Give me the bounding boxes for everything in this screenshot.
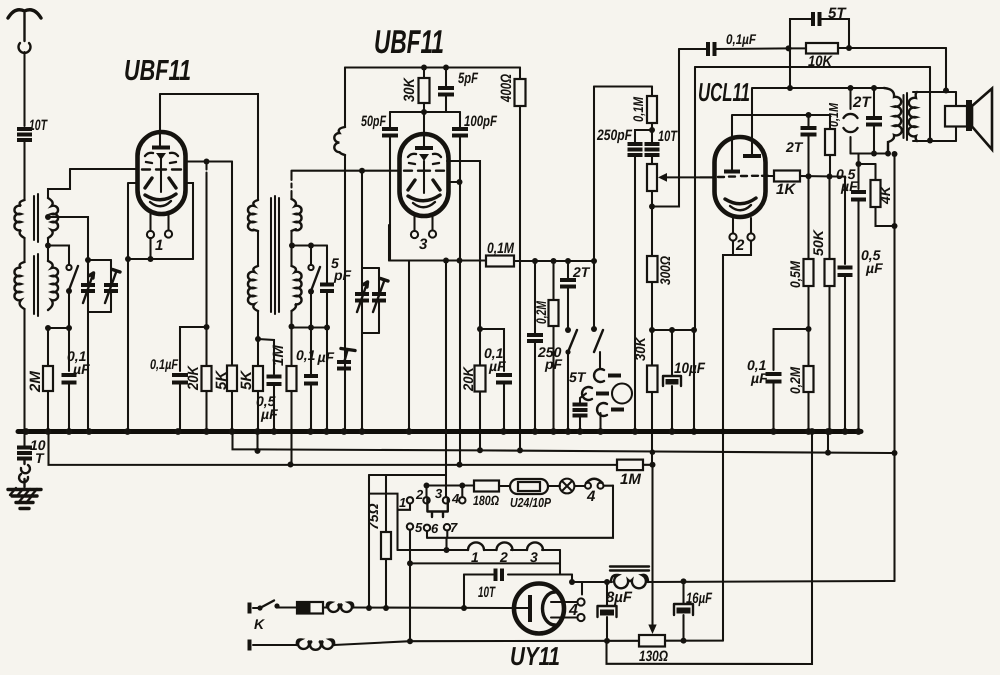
wire winding tap [445, 538, 447, 550]
svg-text:pF: pF [544, 356, 563, 372]
wire osc primary link [257, 231, 259, 266]
node tap1 [45, 214, 51, 220]
coil IF primary small [334, 127, 345, 155]
svg-text:µF: µF [865, 260, 883, 276]
node 4K return [892, 223, 898, 229]
svg-text:20K: 20K [185, 365, 202, 391]
AF takeoff line [859, 154, 876, 165]
tube1 pin 1 left [147, 214, 154, 238]
node heater2 AVC [457, 462, 463, 468]
wire secondary top to grid riser [48, 169, 70, 198]
B plus line under transformer [851, 152, 889, 154]
svg-text:4: 4 [586, 488, 596, 505]
svg-text:20K: 20K [460, 366, 476, 392]
svg-text:4: 4 [451, 491, 460, 506]
selector pin 5 [407, 523, 413, 529]
screen line tube2 [390, 111, 460, 113]
tube2 pin 3 left [411, 216, 418, 238]
node osc bottom right [324, 325, 330, 331]
wire pin4 riser [461, 486, 463, 498]
capacitor 8uF electrolytic [598, 582, 617, 641]
wire socket drop to bus [408, 261, 410, 432]
node switch line junction [66, 325, 72, 331]
wire tube1 box right [186, 183, 194, 259]
node 0.2M top [551, 258, 557, 264]
capacitor 2T tone arcs [844, 88, 858, 154]
node bus link right [825, 428, 832, 435]
resistor 1M hum [617, 460, 653, 471]
tube2 internal screen strokes [408, 180, 440, 190]
wire antenna down [23, 52, 25, 126]
wire tap2 to switch [48, 246, 69, 266]
ground bus [18, 429, 861, 434]
node det line right [591, 258, 597, 264]
node plate flat cap [871, 85, 877, 91]
svg-text:10T: 10T [658, 128, 678, 145]
svg-text:2T: 2T [572, 264, 591, 280]
osc varcap rail bottom [362, 332, 379, 334]
node 10K right [846, 45, 852, 51]
node B plus drop top [892, 151, 898, 157]
resistor 0.5M [804, 176, 814, 329]
wire pin1 feed [369, 494, 398, 550]
speaker frame top [913, 91, 956, 93]
tube1 pin 1 right [165, 214, 172, 238]
tube2 internal diode dashes [409, 163, 439, 164]
node 0.1M bottom [649, 127, 655, 133]
resistor 10K feedback [789, 43, 947, 54]
tube1 internal center stem [160, 158, 162, 192]
UY11 pin 4 top [551, 598, 585, 605]
wire UCL11 pin stub [732, 241, 734, 256]
tube UCL11 envelope [715, 137, 766, 217]
node hum line crossing [650, 449, 656, 455]
node 10uF top [669, 327, 675, 333]
UCL11 plate line A [752, 88, 884, 155]
mains fuse [277, 602, 327, 614]
svg-text:5T: 5T [569, 369, 587, 385]
svg-text:2T: 2T [785, 139, 804, 155]
tube2 diode1 line [447, 161, 480, 329]
wire secondary link [47, 238, 49, 261]
node selector left mains [366, 605, 372, 611]
tube1 socket line [128, 258, 193, 260]
heater loop right [427, 486, 613, 538]
osc coil primary top [248, 200, 258, 231]
wire tuning riser [361, 171, 363, 268]
core osc transformer [271, 196, 279, 314]
wire UCL11 cathode drop [723, 241, 751, 641]
svg-text:250pF: 250pF [596, 127, 632, 144]
wire tube1 plate to osc primary [160, 94, 258, 200]
node selector plug top [424, 483, 430, 489]
resistor 4K [871, 164, 895, 226]
osc bottom link line [292, 326, 328, 328]
capacitor 10T antenna [17, 129, 32, 200]
wire grid line tube1 [70, 168, 138, 170]
wire tube1 box left to bus [127, 259, 129, 432]
UCL11 grid dashes [718, 176, 768, 177]
svg-text:50K: 50K [810, 229, 826, 256]
wire shunt to heater line [571, 575, 573, 583]
wire shunt left drop [463, 575, 465, 609]
wire grid line tube2 [292, 170, 400, 172]
tube UBF11 no2 envelope [400, 134, 449, 216]
svg-text:0,2M: 0,2M [787, 367, 803, 394]
mains terminal L2 [248, 640, 252, 651]
resistor 0.2M det [549, 261, 559, 432]
resistor 50K [825, 177, 835, 432]
svg-text:10K: 10K [808, 53, 833, 70]
svg-text:5T: 5T [828, 5, 847, 22]
osc varcap rail top [362, 267, 379, 269]
node pin5 heater [407, 560, 413, 566]
svg-text:0,2M: 0,2M [533, 301, 549, 324]
mains line L1 [353, 606, 515, 609]
node 16uF bottom [681, 638, 687, 644]
tube UBF11 no1 envelope [138, 132, 186, 214]
wire osc secondary link [290, 231, 292, 266]
capacitor 5pF osc [320, 246, 334, 432]
wire AVC jog [180, 327, 207, 371]
switch S1 band [66, 265, 78, 294]
node coil bottom junction [45, 325, 51, 331]
varcap rail top [88, 259, 111, 261]
svg-text:µF: µF [750, 370, 768, 386]
node selector pin4 riser [459, 483, 465, 489]
node line B 2T [806, 112, 812, 118]
node feedback tap [786, 45, 792, 51]
capacitor 10T filament [496, 569, 503, 582]
svg-text:0,1M: 0,1M [487, 240, 514, 257]
humdinger return loop [607, 432, 813, 665]
node pot bottom [649, 204, 655, 210]
node tube1 box corner [125, 256, 131, 262]
svg-text:UY11: UY11 [510, 641, 560, 671]
svg-text:5pF: 5pF [458, 70, 479, 87]
speaker frame bottom [913, 140, 956, 142]
node B plus flat cap [871, 151, 877, 157]
resistor 30K screen [647, 330, 658, 465]
selector pin 6 [424, 525, 430, 531]
grid decouple jog [774, 328, 809, 330]
capacitor 0.1uF osc [304, 376, 318, 384]
capacitor 5T tone loop [790, 12, 849, 48]
resistor 0.1M AF [647, 87, 657, 131]
node 75ohm mains [383, 605, 389, 611]
svg-text:UBF11: UBF11 [124, 55, 191, 87]
resistor 0.2M bias [804, 329, 814, 432]
osc secondary tap line [292, 244, 327, 246]
wire osc secondary riser dashed [290, 171, 292, 199]
tube2 cathode arcs [408, 195, 440, 201]
svg-text:180Ω: 180Ω [473, 493, 499, 508]
switch S4 phone [591, 261, 603, 368]
node 30K top [421, 65, 427, 71]
node 16uF top [681, 578, 687, 584]
wire B plus drop right [893, 154, 895, 582]
speaker frame right [955, 92, 957, 141]
svg-text:0,1µF: 0,1µF [150, 356, 178, 372]
tube1 internal diode arcs [145, 153, 178, 156]
node UY heater left [569, 579, 575, 585]
resistor 1K [774, 171, 845, 182]
svg-text:0,1M: 0,1M [630, 97, 646, 122]
selector feed line [427, 486, 475, 498]
capacitor 2T jack [560, 261, 576, 328]
wire pin1 stub [398, 504, 411, 510]
tube2 internal center stem [423, 161, 425, 193]
node 30K bottom [421, 109, 427, 115]
tube2 pin 3 right [429, 216, 436, 238]
node osc tap [289, 243, 295, 249]
wire AVC down [205, 162, 207, 328]
node screen jog left [649, 327, 655, 333]
capacitor 50pF [382, 112, 398, 261]
capacitor tone flat [866, 88, 882, 154]
svg-text:UBF11: UBF11 [374, 23, 444, 60]
heater winding 3 [527, 542, 543, 550]
wiper arrow volume [658, 173, 715, 182]
selector box left [368, 475, 370, 608]
svg-text:300Ω: 300Ω [657, 256, 673, 285]
svg-text:5K: 5K [238, 370, 255, 390]
wire IF coil feed [344, 68, 346, 127]
heater rail two [49, 432, 618, 465]
screen jog line [652, 329, 694, 331]
node plate 2T arc cap [848, 85, 854, 91]
pilot lamp [560, 479, 585, 494]
UY11 anode lead [515, 607, 530, 609]
node B plus transformer [885, 151, 891, 157]
capacitor 0.1uF det [480, 329, 512, 432]
trimmer capacitor IF line [337, 349, 355, 369]
node heater1 20K [477, 447, 483, 453]
tube2 internal triangle [419, 154, 429, 161]
wire tube1 box left [128, 183, 138, 259]
wire IF coil to bus [344, 155, 346, 432]
tube2 diode2 stub [448, 181, 460, 183]
selector pin 2 [423, 497, 429, 503]
svg-text:400Ω: 400Ω [498, 74, 515, 103]
svg-text:µF: µF [260, 406, 278, 422]
resistor 5K second [253, 311, 263, 432]
node AVC takeoff [204, 159, 210, 165]
B plus line [647, 581, 895, 582]
antenna coil secondary bottom [48, 261, 58, 310]
osc coil secondary top [292, 199, 302, 231]
svg-text:30K: 30K [401, 77, 418, 102]
svg-text:1K: 1K [776, 181, 796, 198]
wire diode1 to 5K [231, 162, 233, 366]
core antenna transformer [34, 194, 38, 316]
variable capacitor C-ant2 trimmer [104, 260, 120, 312]
resistor 20K second [475, 329, 486, 451]
capacitor 10uF electrolytic [663, 330, 681, 432]
osc coil secondary bottom [292, 266, 302, 311]
resistor 180ohm [474, 481, 510, 492]
svg-text:1: 1 [471, 549, 479, 565]
node tube1 pin stub [148, 256, 154, 262]
node plate line feedback [787, 85, 793, 91]
wire tube2 top [423, 112, 425, 146]
capacitor 10T AF [645, 130, 660, 164]
wire feedback to plate [789, 48, 791, 88]
wire primary link [23, 238, 25, 262]
svg-text:7: 7 [450, 520, 458, 535]
node 8uF mains [604, 638, 610, 644]
node heater1 400ohm [517, 447, 523, 453]
phone jack hooks [582, 369, 624, 416]
capacitor 0.5uF cathode [258, 339, 282, 432]
wire switch to junction [68, 291, 70, 371]
svg-text:K: K [254, 616, 265, 632]
heater lower wire [410, 550, 560, 575]
tube1 internal triangle [156, 153, 166, 160]
svg-text:5: 5 [415, 520, 423, 535]
resistor 20K first [202, 327, 212, 432]
potentiometer 0.1M volume [647, 164, 657, 256]
node 5pF top [443, 65, 449, 71]
resistor 75ohm [381, 475, 391, 608]
variable capacitor C-osc1 [355, 268, 369, 333]
UCL11 box top [695, 66, 930, 68]
UY11 cathode bar [528, 595, 532, 622]
node winding tap [444, 547, 450, 553]
wire box right to speaker [929, 67, 931, 141]
selector bottom links [427, 530, 447, 537]
tube1 internal grid dashes [142, 168, 181, 170]
node 0.1M grid bottom [827, 174, 833, 180]
mains choke L1 [327, 602, 353, 611]
UCL11 pentode plate bar [743, 154, 761, 158]
node heater1 link [825, 450, 831, 456]
node speaker return [927, 138, 933, 144]
resistor 130ohm humdinger [639, 635, 723, 647]
UCL11 pin 2 left [729, 218, 736, 241]
capacitor 250pF det [527, 261, 543, 432]
antenna symbol [8, 10, 41, 41]
switch S2 osc [308, 246, 320, 328]
node AF takeoff [856, 161, 862, 167]
UY11 anode arc [543, 592, 556, 625]
capacitor 100pF [452, 112, 468, 465]
capacitor 0.1uF feedback [679, 42, 789, 56]
svg-text:U24/10P: U24/10P [510, 495, 551, 510]
output transformer primary [884, 88, 902, 154]
tube1 plate lead [159, 94, 161, 147]
capacitor 16uF electrolytic [674, 581, 693, 640]
resistor 0.1M detector [486, 256, 594, 267]
capacitor 0.1uF antenna [62, 375, 77, 432]
tube1 internal plate bar [152, 146, 170, 150]
mains switch K [253, 601, 280, 611]
svg-text:µF: µF [488, 358, 506, 374]
node AVC jog [204, 324, 210, 330]
node shunt mains [461, 605, 467, 611]
capacitor 0.1uF decouple [766, 329, 782, 432]
wire bus link right [827, 432, 829, 453]
heater rail one [233, 432, 895, 454]
voltage selector plug [427, 498, 447, 517]
mains line L2 [334, 641, 639, 645]
node humdinger bus [809, 428, 816, 435]
varcap rail bottom [88, 311, 111, 313]
speaker cone [972, 89, 992, 150]
wire detector feed down [593, 87, 595, 262]
antenna coil primary bottom [14, 262, 24, 309]
mains choke L2 [253, 639, 334, 649]
resistor 0.1M grid [825, 115, 835, 177]
svg-text:10T: 10T [29, 117, 48, 134]
node varcap rail [85, 257, 91, 263]
capacitor 5T jack [573, 394, 588, 432]
UY11 pin 4 bottom [551, 614, 585, 621]
wire heater riser [445, 261, 447, 498]
node osc bottom left [289, 324, 295, 330]
svg-text:0,1M: 0,1M [826, 102, 841, 127]
plate supply line tube2 [345, 66, 520, 68]
svg-text:0,1µF: 0,1µF [296, 347, 335, 365]
svg-text:75Ω: 75Ω [365, 503, 381, 530]
svg-text:16µF: 16µF [686, 590, 713, 607]
wire varcap to bus [87, 312, 89, 432]
variable capacitor C-osc2 trimmer [372, 268, 388, 333]
selector pin 3 [443, 497, 449, 503]
tube1 cathode arcs [145, 194, 176, 200]
wire tube1 pin stub [149, 238, 151, 259]
heater winding line [398, 549, 561, 551]
ground hook links [19, 459, 30, 488]
UCL11 pin 2 right [747, 218, 754, 241]
tube2 socket left riser [388, 225, 390, 261]
svg-text:2: 2 [499, 549, 508, 565]
svg-text:100pF: 100pF [464, 113, 498, 130]
UCL11 grid entry [700, 176, 715, 178]
svg-text:8µF: 8µF [606, 589, 633, 606]
resistor 1M osc grid leak [287, 311, 297, 465]
resistor 2M [43, 328, 53, 432]
svg-text:µF: µF [840, 178, 858, 194]
UCL11 box left [694, 67, 696, 330]
wire jack bottom contact [599, 413, 601, 432]
wire feedback return [652, 49, 679, 207]
filament shunt line 10T [464, 573, 572, 575]
selector box top line [369, 474, 446, 476]
capacitor 10T ground [17, 432, 32, 459]
UY heater line [572, 581, 612, 583]
phone jack bush [612, 384, 632, 404]
svg-text:30K: 30K [632, 336, 648, 361]
selector pin 7 [444, 524, 450, 530]
svg-text:10T: 10T [478, 584, 496, 601]
svg-text:2T: 2T [852, 94, 872, 111]
capacitor 0.5uF output [851, 164, 866, 432]
svg-text:2M: 2M [27, 371, 44, 393]
earth ground symbol [8, 488, 41, 509]
svg-text:1: 1 [399, 495, 406, 510]
UCL11 cathode arcs [725, 198, 756, 204]
switch 4 mains [585, 479, 613, 489]
node hum tap [650, 462, 656, 468]
wire hum arrow [648, 465, 656, 634]
wire osc varcap to bus [361, 333, 363, 432]
filter choke winding [611, 575, 648, 588]
node heater2 1M osc [288, 462, 294, 468]
capacitor 5pF IF [438, 68, 454, 113]
heater winding 2 [497, 542, 513, 550]
mains terminal L1 [248, 603, 252, 614]
